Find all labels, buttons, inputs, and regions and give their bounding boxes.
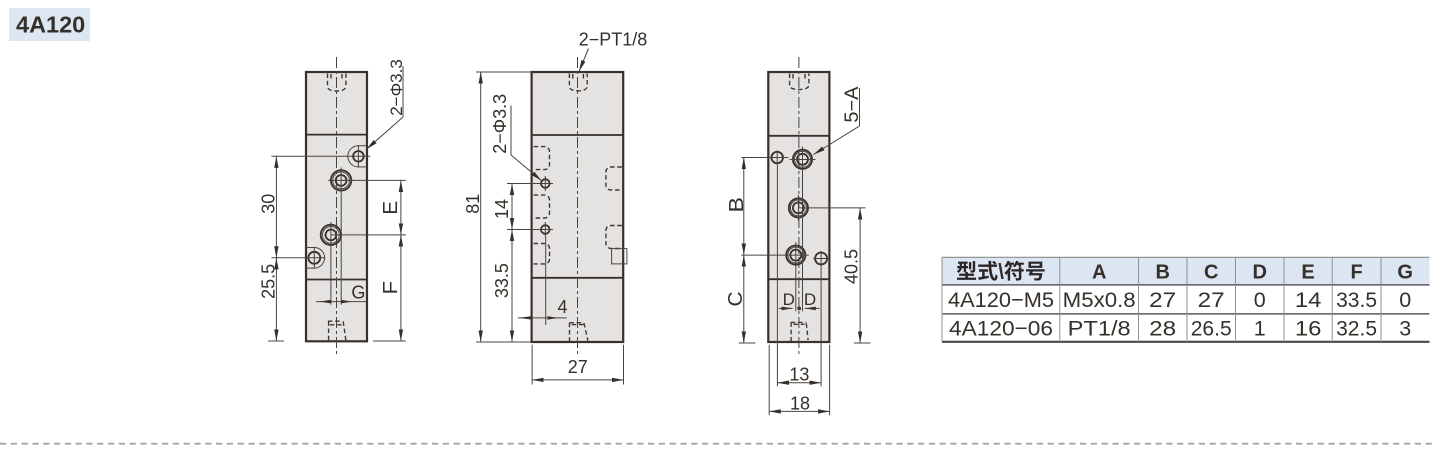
- svg-text:30: 30: [259, 194, 279, 214]
- table header fill: [942, 257, 1430, 285]
- svg-text:D: D: [804, 290, 816, 309]
- svg-text:D: D: [783, 290, 795, 309]
- view2 right hidden port 1: [606, 167, 622, 190]
- view3 small hole S2: [813, 253, 829, 265]
- view3 S2 extension line down (dim 13 right): [820, 251, 822, 386]
- svg-text:A: A: [1092, 262, 1106, 284]
- view1 dimension 30 (with 25.5 chain) extension lines: [268, 156, 370, 341]
- view2 hole H1: [538, 176, 554, 191]
- svg-text:C: C: [725, 292, 747, 307]
- view1 dimension E: [380, 180, 402, 235]
- svg-text:33.5: 33.5: [492, 263, 512, 298]
- view1 hole C2 centre line down to G dimension: [340, 193, 342, 304]
- svg-text:1: 1: [1254, 317, 1266, 341]
- view1 dimension E / F extension lines: [331, 180, 406, 341]
- view2 dimension 27: [532, 357, 623, 380]
- view2 dimension 33.5: [492, 230, 512, 343]
- view3 body: [768, 72, 829, 342]
- svg-text:F: F: [1350, 262, 1362, 284]
- svg-text:4A120−M5: 4A120−M5: [948, 288, 1054, 312]
- view3 dimension D D: [779, 290, 820, 310]
- view1 threaded hole C3: [321, 222, 341, 248]
- svg-text:27: 27: [1198, 288, 1225, 312]
- svg-text:32.5: 32.5: [1336, 317, 1377, 341]
- svg-text:14: 14: [492, 199, 512, 219]
- view3 T3 centre line down to D dimension: [795, 268, 797, 311]
- view2 hole H2: [538, 222, 554, 237]
- view1 hole C3 centre line down to G dimension: [330, 248, 332, 305]
- svg-text:E: E: [1301, 262, 1314, 284]
- svg-text:16: 16: [1295, 317, 1322, 341]
- view1 side hole C4 with counterbore: [306, 247, 325, 269]
- view3 bottom port (hidden): [791, 322, 808, 341]
- svg-text:2−Φ3.3: 2−Φ3.3: [490, 94, 510, 154]
- svg-text:G: G: [1397, 262, 1413, 284]
- view3 T1 centre line down to D dimension: [802, 170, 804, 311]
- view1 vertical centerline: [336, 57, 338, 356]
- svg-text:14: 14: [1295, 288, 1322, 312]
- view1 bottom port (hidden): [328, 321, 346, 341]
- view3 dimension 40.5: [841, 208, 861, 343]
- view3 dimension B / C extension lines: [739, 158, 809, 344]
- table row 1: [948, 288, 1411, 312]
- table header row text: [957, 261, 1413, 284]
- svg-text:27: 27: [1149, 288, 1176, 312]
- view2 left hidden port 1: [534, 147, 550, 170]
- svg-text:2−PT1/8: 2−PT1/8: [579, 30, 648, 50]
- view2 body: [532, 72, 624, 342]
- view1 label 2-diam3.3 with leader: [366, 59, 406, 149]
- view1 dimension 30: [259, 156, 279, 257]
- view3 small hole S1: [771, 151, 783, 166]
- view2 dimension 27 extension lines: [532, 345, 623, 385]
- view2 right side stub: [612, 249, 627, 264]
- view3 dimension 40.5 extension lines: [798, 208, 870, 343]
- page bottom dashed separator: [0, 443, 1435, 445]
- view2 dimension 14: [492, 184, 512, 230]
- view3 threaded hole T1 (5-A): [790, 147, 816, 173]
- view1 top port (hidden): [328, 74, 346, 92]
- view1 dimension F: [380, 235, 402, 341]
- svg-text:18: 18: [790, 393, 810, 413]
- view2 right hidden port 2: [606, 226, 622, 249]
- svg-text:27: 27: [568, 357, 588, 377]
- svg-text:4A120: 4A120: [16, 11, 85, 37]
- svg-text:3: 3: [1399, 317, 1411, 341]
- view3 threaded hole T3: [786, 242, 805, 268]
- title plate 4A120: [9, 8, 90, 41]
- svg-text:25.5: 25.5: [259, 264, 279, 299]
- table grid lines: [942, 257, 1430, 342]
- view3 top port (hidden): [790, 74, 809, 90]
- svg-text:\: \: [998, 261, 1004, 284]
- view1 body: [306, 72, 367, 341]
- view3 dimension 18 extension lines: [769, 345, 829, 416]
- svg-text:0: 0: [1399, 288, 1411, 312]
- svg-text:B: B: [726, 197, 748, 213]
- svg-text:40.5: 40.5: [841, 249, 861, 284]
- view3 dimension B: [726, 158, 748, 256]
- svg-text:D: D: [1252, 262, 1266, 284]
- svg-text:4A120−06: 4A120−06: [949, 317, 1053, 341]
- svg-text:33.5: 33.5: [1336, 288, 1377, 312]
- svg-text:28: 28: [1149, 317, 1176, 341]
- svg-text:B: B: [1155, 262, 1169, 284]
- table row 2: [949, 317, 1411, 341]
- view2 label 2-PT1/8 with leader: [579, 30, 648, 72]
- svg-text:81: 81: [463, 194, 483, 214]
- view3 vertical centerline: [798, 57, 800, 356]
- svg-text:PT1/8: PT1/8: [1068, 317, 1131, 341]
- svg-text:G: G: [351, 283, 365, 303]
- svg-text:C: C: [1204, 262, 1218, 284]
- view3 threaded hole T2: [789, 195, 808, 221]
- svg-text:26.5: 26.5: [1191, 317, 1232, 341]
- view3 dimension C: [725, 255, 747, 343]
- view2 left hidden port 2: [534, 195, 550, 218]
- svg-text:4: 4: [557, 297, 567, 317]
- view3 dimension 18: [769, 393, 829, 413]
- view2 top port 2-PT1/8 (hidden): [569, 74, 587, 91]
- view1 counterbore hole C1 (2-3.3 drill): [348, 145, 367, 168]
- view2 label 2-diam3.3 with leader: [490, 94, 542, 181]
- svg-text:F: F: [380, 281, 402, 295]
- view2 bottom port (hidden): [569, 323, 588, 341]
- view2 dimension 81: [463, 72, 483, 342]
- view2 dimension 14 extension lines: [507, 184, 541, 230]
- view2 dimension 4: [518, 297, 568, 320]
- view1 threaded hole C2: [328, 168, 354, 194]
- view1 dimension G: [316, 283, 367, 304]
- view2 vertical centerline: [577, 57, 579, 356]
- svg-text:0: 0: [1254, 288, 1266, 312]
- view1 dimension 25.5: [259, 258, 279, 341]
- view3 dimension 13: [777, 365, 821, 385]
- view3 label 5-A with leader: [814, 86, 864, 154]
- view2 dimension 81 extension lines: [476, 72, 532, 342]
- view2 hole H2 extension down to dim 4: [545, 237, 547, 325]
- svg-text:M5x0.8: M5x0.8: [1063, 288, 1136, 312]
- view3 S1 extension line down (dim 13 left): [776, 165, 778, 386]
- svg-text:13: 13: [789, 365, 809, 385]
- view2 left hidden port 3: [534, 244, 550, 264]
- svg-text:E: E: [380, 201, 402, 215]
